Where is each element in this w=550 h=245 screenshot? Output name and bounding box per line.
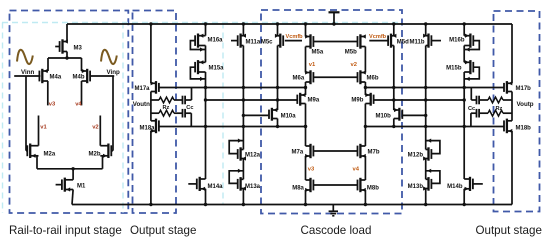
- transistor M2b: [89, 144, 112, 159]
- svg-text:M5b: M5b: [345, 50, 357, 56]
- transistor M11a: [231, 34, 261, 48]
- transistor M17a: [135, 81, 159, 94]
- resistor Rz (lower right): [488, 110, 503, 116]
- svg-text:M9b: M9b: [351, 98, 363, 104]
- wire node v1: [38, 116, 40, 146]
- svg-text:M7a: M7a: [292, 150, 304, 156]
- wire M18b source to VSS: [511, 131, 513, 205]
- svg-text:M6a: M6a: [293, 76, 305, 82]
- wire M18b gate line up to Cc2 right: [471, 113, 477, 126]
- transistor M12b: [408, 147, 432, 160]
- sine source left (Vinn): [17, 50, 33, 64]
- svg-text:M10b: M10b: [375, 114, 391, 120]
- transistor M10a: [268, 108, 296, 121]
- wire M10a gate line: [242, 114, 269, 117]
- svg-text:M6b: M6b: [367, 76, 379, 82]
- wire M5d source to VDD: [392, 22, 395, 36]
- wire M16a source to VDD: [204, 22, 207, 35]
- resistor Rz (upper left): [159, 97, 174, 103]
- svg-text:Voutp: Voutp: [517, 101, 534, 108]
- svg-text:v4: v4: [353, 167, 360, 173]
- svg-text:Vinp: Vinp: [107, 69, 121, 76]
- svg-text:M7b: M7b: [368, 150, 380, 156]
- svg-text:M18b: M18b: [516, 126, 532, 132]
- wire M4b source: [81, 58, 83, 71]
- M5d gate lead (Vcmfb): [369, 40, 388, 42]
- transistor M5d: [388, 34, 409, 48]
- wire M11a drain down to M12a: [242, 46, 244, 150]
- wire Cc1 up to M17a gate line: [185, 88, 191, 101]
- wire M13a source to VSS: [242, 189, 245, 207]
- svg-text:M4a: M4a: [50, 75, 62, 81]
- svg-text:Cc: Cc: [186, 105, 193, 111]
- wire M8a source to VSS: [304, 190, 307, 206]
- capacitor Cc (lower right): [477, 109, 480, 118]
- wire M10b gate line: [402, 114, 427, 117]
- transistor M7b: [358, 144, 380, 158]
- node label Voutn: [133, 101, 150, 108]
- label Rz right: [496, 106, 503, 112]
- M13b diode loop: [426, 169, 440, 184]
- wire M5a-M5b gate line: [313, 41, 357, 43]
- svg-text:v1: v1: [309, 62, 316, 68]
- node label Vinp: [107, 69, 121, 76]
- VSS rail (bottom): [72, 204, 512, 206]
- transistor M13b: [408, 177, 432, 191]
- wire Rz2 to Voutp: [503, 112, 512, 114]
- svg-text:Cascode load: Cascode load: [301, 224, 372, 237]
- wire Voutn to Rz1: [151, 99, 159, 101]
- transistor M3: [55, 39, 82, 53]
- wire M3 drain to VDD: [66, 24, 68, 42]
- net label v4 cascode: [353, 167, 360, 173]
- wire M10b drain to gate line: [393, 119, 395, 127]
- wire first-stage output line to M17a gate (y87.5): [159, 86, 307, 89]
- wire M14b source to VSS: [463, 189, 466, 206]
- svg-text:v4: v4: [75, 102, 82, 108]
- stage box: cascode load (dashed blue): [261, 10, 402, 214]
- svg-text:M17a: M17a: [135, 86, 151, 92]
- wire M5a source to VDD: [304, 22, 307, 36]
- node label Vinn: [21, 69, 35, 76]
- svg-text:M8b: M8b: [367, 186, 379, 192]
- transistor M7a: [292, 144, 314, 158]
- wire M4a source: [47, 58, 49, 71]
- wire M16a drain to M15a: [205, 46, 207, 63]
- M16b diode loop: [464, 41, 479, 52]
- svg-text:M15a: M15a: [209, 66, 225, 72]
- capacitor Cc (upper right): [477, 96, 480, 105]
- transistor M14b: [447, 177, 483, 191]
- svg-text:M10a: M10a: [281, 114, 297, 120]
- transistor M13a: [238, 177, 261, 191]
- node label v2: [92, 125, 98, 131]
- wire Cc2 down to M18a gate line: [185, 113, 191, 126]
- transistor M5c: [261, 34, 283, 48]
- wire M13b source to VSS: [424, 189, 427, 207]
- net label v1 cascode: [309, 62, 316, 68]
- transistor M4a: [39, 69, 61, 83]
- wire node v1 cascode: [305, 47, 307, 73]
- svg-text:M8a: M8a: [292, 186, 304, 192]
- M13a diode loop: [229, 169, 243, 184]
- wire node v2 cascode: [364, 47, 366, 73]
- svg-text:v3: v3: [308, 167, 315, 173]
- svg-text:v1: v1: [40, 125, 47, 131]
- capacitor Cc (upper left): [183, 96, 186, 105]
- transistor M5b: [345, 34, 366, 55]
- wire M6a drain to M9a: [305, 82, 307, 95]
- wire M7a-M7b gate line: [313, 150, 357, 152]
- stage box: rail-to-rail input stage (dashed blue): [10, 11, 129, 214]
- transistor M8b: [358, 178, 380, 192]
- M12a diode loop: [229, 139, 243, 154]
- wire M17a source to VDD: [149, 22, 152, 83]
- wire node Voutn: [150, 92, 152, 121]
- wire node v3: [47, 81, 49, 105]
- svg-text:Vcmfb: Vcmfb: [286, 34, 304, 40]
- wire M2a source down: [36, 156, 38, 169]
- VDD rail (top): [67, 23, 512, 25]
- wire Vinn input: [14, 75, 40, 77]
- wire M15b drain down to M14b: [463, 72, 465, 179]
- capacitor Cc (lower left): [183, 109, 186, 118]
- wire common source line M4a-M4b: [48, 57, 82, 59]
- wire M6a-M6b gate line: [313, 76, 357, 78]
- transistor M8a: [292, 178, 313, 192]
- M12b diode loop: [426, 139, 440, 154]
- wire M5d drain down to M10b: [393, 46, 395, 111]
- wire M17b gate line down to Cc1 right: [471, 88, 476, 101]
- svg-text:Vinn: Vinn: [21, 69, 35, 76]
- svg-text:v3: v3: [49, 102, 56, 108]
- net label v2 cascode: [351, 62, 357, 68]
- svg-text:M1: M1: [77, 184, 86, 190]
- net label v3 cascode: [308, 167, 315, 173]
- svg-text:M4b: M4b: [73, 75, 85, 81]
- wire M11b drain down to M12b: [425, 46, 427, 150]
- svg-text:Cc: Cc: [468, 106, 475, 112]
- caption rail-to-rail input stage: [9, 224, 122, 237]
- net label Vcmfb left: [286, 34, 304, 40]
- M16a diode loop: [190, 41, 205, 52]
- wire M10a drain to gate line: [277, 119, 279, 127]
- svg-text:Output stage: Output stage: [476, 224, 542, 237]
- svg-text:M5d: M5d: [397, 40, 409, 46]
- svg-text:M15b: M15b: [446, 66, 462, 72]
- wire Vinp to M2b gate: [111, 76, 113, 151]
- caption cascode load: [301, 224, 372, 237]
- wire tail to M1 drain: [72, 169, 74, 180]
- sine source right (Vinp): [101, 50, 117, 64]
- svg-text:M12a: M12a: [245, 153, 261, 159]
- svg-text:M11a: M11a: [246, 40, 261, 46]
- node label v1: [40, 125, 47, 131]
- svg-text:M17b: M17b: [516, 86, 532, 92]
- transistor M1: [56, 178, 86, 192]
- wire Cc1 to Rz1 right: [479, 99, 488, 101]
- transistor M4b: [73, 69, 91, 83]
- wire M16b drain to M15b: [463, 46, 465, 63]
- wire node v4 cascode: [364, 156, 366, 180]
- svg-text:M2a: M2a: [44, 152, 56, 158]
- highlight box (light cyan dashed): [2, 23, 398, 214]
- stage box: right output stage (dashed blue): [494, 11, 540, 212]
- transistor M16a: [195, 34, 223, 48]
- ground symbol: [329, 205, 338, 216]
- wire M16b source to VDD: [463, 22, 466, 35]
- transistor M10b: [375, 108, 402, 121]
- svg-text:M11b: M11b: [409, 40, 424, 46]
- wire M5c drain down to M10a: [277, 46, 279, 111]
- transistor M9a: [297, 93, 320, 106]
- wire M8b source to VSS: [364, 190, 367, 206]
- label Cc left: [186, 105, 193, 111]
- wire M1 source to VSS: [72, 190, 73, 205]
- wire tail line: [37, 167, 103, 170]
- wire node v2: [99, 116, 101, 146]
- transistor M18b: [504, 119, 531, 134]
- node label v4: [75, 102, 82, 108]
- svg-text:Voutn: Voutn: [133, 101, 150, 108]
- transistor M15a: [195, 60, 224, 74]
- VDD supply stub: [329, 12, 340, 25]
- transistor M6b: [358, 70, 379, 84]
- wire M8a-M8b gate line: [313, 184, 357, 186]
- svg-text:M16a: M16a: [208, 38, 224, 44]
- transistor M17b: [504, 81, 531, 94]
- wire M2b source down: [102, 156, 104, 169]
- label Rz left: [163, 105, 170, 111]
- wire M12b to M13b: [425, 159, 427, 180]
- wire node v4: [81, 81, 83, 105]
- transistor M2a: [27, 144, 56, 159]
- svg-text:M14b: M14b: [447, 184, 463, 190]
- wire bias line M9b gate (y100 right): [374, 98, 466, 101]
- label Cc right: [468, 106, 475, 112]
- svg-text:M5c: M5c: [261, 40, 273, 46]
- wire M3 to common source node: [65, 52, 68, 60]
- node label Voutp: [517, 101, 534, 108]
- wire Rz2 to Cc2: [174, 112, 182, 114]
- wire M9b drain down: [364, 104, 367, 147]
- wire M11a source to VDD: [242, 22, 245, 35]
- svg-text:Vcmfb: Vcmfb: [369, 34, 387, 40]
- node label v3: [49, 102, 56, 108]
- svg-text:v2: v2: [351, 62, 357, 68]
- transistor M6a: [293, 70, 314, 84]
- svg-text:M13b: M13b: [408, 184, 424, 190]
- wire Voutn to Rz2: [151, 112, 159, 114]
- transistor M15b: [446, 60, 473, 74]
- svg-text:M13a: M13a: [245, 184, 261, 190]
- wire node Voutp: [511, 92, 513, 121]
- transistor M12a: [238, 147, 261, 160]
- M15b diode loop: [464, 67, 479, 81]
- wire M5c source to VDD: [276, 22, 279, 36]
- svg-text:M18a: M18a: [140, 126, 156, 132]
- transistor M16b: [449, 34, 473, 48]
- wire line to M18b gate (y126.5 right): [365, 125, 504, 128]
- net label Vcmfb right: [369, 34, 387, 40]
- transistor M14a: [188, 177, 223, 191]
- transistor M18a: [140, 119, 159, 134]
- wire Rz1 to Voutp: [503, 99, 512, 101]
- wire Rz1 to Cc1: [174, 99, 182, 101]
- wire bias line to M9a gate (y100): [204, 98, 298, 101]
- wire M14a source to VSS: [204, 189, 207, 206]
- stage box: left output stage (dashed blue): [133, 11, 177, 214]
- svg-text:Rz: Rz: [496, 106, 503, 112]
- wire node v3 cascode: [305, 156, 307, 180]
- wire Vinn to M2a gate: [26, 76, 27, 151]
- svg-text:v2: v2: [92, 125, 98, 131]
- svg-text:M5a: M5a: [312, 50, 324, 56]
- svg-text:M16b: M16b: [449, 38, 465, 44]
- svg-text:M3: M3: [74, 46, 83, 52]
- transistor M11b: [409, 34, 441, 48]
- wire first-stage output line to M17b gate (y87.5 right): [364, 86, 504, 89]
- wire M9a drain down: [304, 104, 307, 147]
- wire M18a source to VSS: [149, 131, 152, 206]
- caption output stage left: [130, 224, 196, 237]
- svg-text:M12b: M12b: [408, 153, 424, 159]
- svg-text:M14a: M14a: [208, 184, 224, 190]
- transistor M5a: [305, 34, 324, 55]
- wire Cc2 to Rz2 right: [479, 112, 488, 114]
- wire M15a drain down to M14a: [205, 72, 207, 179]
- M5c gate lead (Vcmfb): [285, 40, 302, 42]
- caption output stage right: [476, 224, 542, 237]
- wire M17b source to VDD: [511, 24, 513, 83]
- wire M11b source to VDD: [424, 22, 427, 35]
- svg-text:Output stage: Output stage: [130, 224, 196, 237]
- svg-text:M9a: M9a: [308, 98, 320, 104]
- resistor Rz (lower left): [159, 110, 174, 116]
- resistor Rz (upper right): [488, 97, 503, 103]
- svg-text:M2b: M2b: [89, 152, 101, 158]
- M15a diode loop: [190, 67, 205, 81]
- transistor M9b: [351, 93, 373, 106]
- svg-text:Rail-to-rail input stage: Rail-to-rail input stage: [9, 224, 122, 237]
- wire Vinp input: [90, 75, 114, 77]
- wire M12a to M13a: [242, 159, 244, 180]
- wire line to M18a gate (y126.5): [159, 125, 307, 128]
- wire M6b drain to M9b: [364, 82, 366, 95]
